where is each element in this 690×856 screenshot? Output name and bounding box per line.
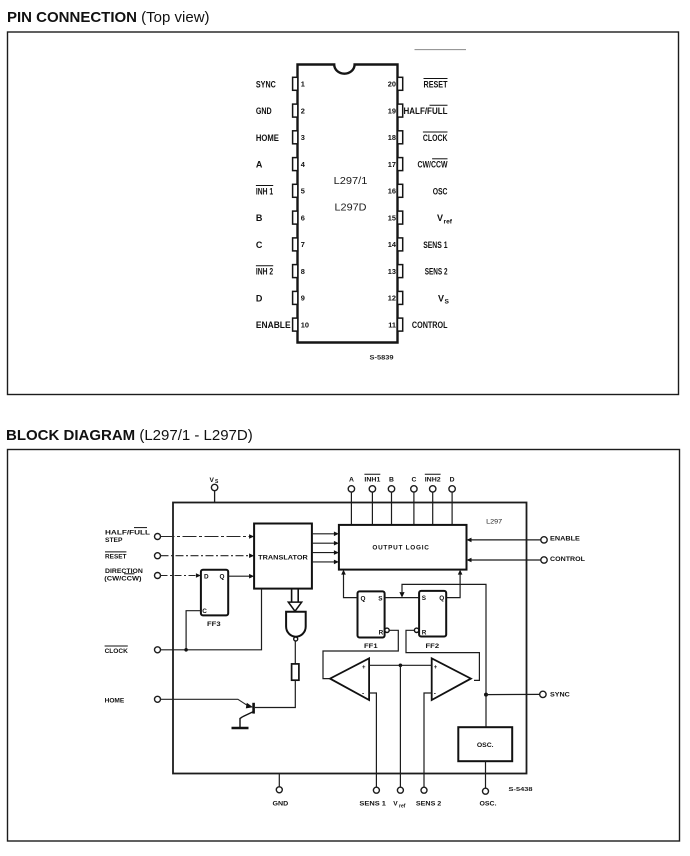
svg-text:11: 11 [388, 320, 396, 329]
svg-text:13: 13 [388, 267, 396, 276]
svg-text:2: 2 [301, 106, 305, 115]
terminal CLOCK [155, 647, 161, 653]
pin 3 (HOME) stub, number and label [256, 131, 305, 144]
wire HALF/FULL STEP to translator [161, 534, 255, 539]
terminal OSC [483, 788, 489, 794]
wire resistor to transistor collector [255, 680, 295, 707]
svg-text:INH 2: INH 2 [256, 267, 273, 277]
svg-text:SENS 1: SENS 1 [359, 800, 386, 807]
terminal Vs [211, 484, 217, 490]
transistor Q1 (open collector HOME output) [240, 703, 254, 727]
svg-text:18: 18 [388, 133, 396, 142]
svg-text:RESET: RESET [424, 79, 448, 89]
terminal CONTROL [541, 557, 547, 563]
node INH2 label and terminal [425, 474, 441, 492]
svg-text:L297D: L297D [335, 203, 367, 214]
terminal HALF/FULL STEP [155, 534, 161, 540]
svg-text:-: - [434, 691, 436, 698]
wire SYNC to terminal [486, 693, 540, 695]
svg-text:Q: Q [220, 574, 225, 581]
svg-text:19: 19 [388, 106, 396, 115]
wire CONTROL to output logic [467, 558, 541, 563]
pin 13 (SENS 2) stub, number and label [388, 265, 448, 278]
svg-text:14: 14 [388, 240, 397, 249]
wire NAND output to resistor [294, 641, 296, 664]
pin 17 (CW/CCW) stub, number and label [388, 158, 448, 171]
svg-text:5: 5 [301, 187, 305, 196]
terminal SENS 1 [373, 787, 379, 793]
wire FF1 R from comparator 1 [323, 630, 398, 678]
svg-text:V: V [210, 477, 215, 484]
flip-flop FF2 [414, 591, 446, 650]
wire GND stem [278, 774, 280, 787]
wire C to output logic [413, 492, 415, 525]
terminal Vref [397, 787, 403, 793]
svg-text:S: S [422, 595, 427, 602]
svg-text:HALF/FULL: HALF/FULL [404, 106, 448, 116]
svg-text:R: R [379, 629, 384, 636]
node INH1 label and terminal [364, 474, 380, 492]
pin 14 (SENS 1) stub, number and label [388, 238, 448, 251]
svg-text:L297/1: L297/1 [334, 176, 368, 187]
svg-text:STEP: STEP [105, 537, 123, 544]
pin 6 (B) stub, number and label [256, 211, 305, 224]
svg-text:S-5438: S-5438 [509, 787, 533, 793]
svg-text:TRANSLATOR: TRANSLATOR [258, 554, 308, 561]
block OSC (oscillator) [458, 727, 512, 761]
svg-text:INH2: INH2 [425, 477, 441, 484]
svg-text:L297: L297 [486, 518, 503, 525]
svg-text:S: S [378, 595, 383, 602]
block TRANSLATOR [254, 524, 312, 589]
pin 18 (CLOCK) stub, number and label [388, 131, 448, 144]
svg-text:GND: GND [273, 800, 289, 807]
wire FF2 Q to output logic [446, 570, 462, 598]
node C label and terminal [411, 477, 417, 493]
svg-text:7: 7 [301, 240, 305, 249]
IC boundary rectangle (L297 chip outline) [173, 503, 527, 774]
svg-text:ENABLE: ENABLE [256, 320, 291, 330]
svg-text:D: D [256, 293, 263, 303]
node D label and terminal [449, 477, 455, 493]
svg-text:SYNC: SYNC [550, 691, 570, 698]
wire DIRECTION to FF3 D input [161, 573, 201, 578]
wire FF1 Q to output logic [341, 570, 357, 598]
pin 4 (A) stub, number and label [256, 158, 306, 171]
svg-text:B: B [389, 477, 394, 484]
svg-text:CLOCK: CLOCK [105, 648, 128, 655]
wire RESET to translator [161, 553, 255, 558]
svg-text:INH1: INH1 [364, 477, 380, 484]
wire OSC block to terminal [485, 761, 487, 788]
node DIRECTION (CW/CCW) label [104, 568, 143, 583]
svg-text:12: 12 [388, 294, 396, 303]
svg-text:8: 8 [301, 267, 305, 276]
svg-text:D: D [204, 574, 209, 581]
title BLOCK DIAGRAM [6, 427, 253, 444]
stray scan line [415, 49, 467, 51]
svg-text:V: V [437, 213, 443, 223]
wire translator to output logic [312, 541, 339, 546]
svg-text:DIRECTION: DIRECTION [105, 568, 143, 575]
wire HOME to transistor base [161, 699, 254, 708]
wire translator to output logic [312, 550, 339, 555]
svg-text:A: A [349, 477, 354, 484]
wire comparator 2 - input to SENS 2 [424, 693, 432, 787]
junction CLOCK / FF3 C [184, 648, 188, 652]
NAND gate [286, 612, 306, 641]
comparator C1 (sense 1) [330, 658, 369, 700]
pin 2 (GND) stub, number and label [256, 104, 305, 117]
svg-text:20: 20 [388, 80, 396, 89]
title PIN CONNECTION [7, 9, 210, 26]
comparator C2 (sense 2) [432, 658, 471, 700]
pin 19 (HALF/FULL) stub, number and label [388, 104, 448, 117]
wire Vref to terminal [399, 665, 401, 787]
pin 15 (Vref) stub, number and label [388, 211, 453, 225]
wire FF3 Q to translator [228, 574, 254, 579]
svg-text:HOME: HOME [256, 133, 279, 143]
svg-text:16: 16 [388, 187, 396, 196]
wire translator to NAND gate (double-line hollow arrow) [288, 589, 301, 612]
svg-text:OUTPUT LOGIC: OUTPUT LOGIC [372, 545, 429, 552]
svg-text:SENS 2: SENS 2 [425, 267, 448, 277]
svg-text:Q: Q [439, 595, 444, 602]
svg-text:C: C [202, 608, 207, 615]
svg-text:V: V [438, 293, 444, 303]
wire FF3 C to clock line [186, 611, 201, 650]
svg-text:A: A [256, 160, 263, 170]
wire FF1 S to FF2 S [385, 597, 420, 599]
frame: block diagram border [8, 450, 680, 842]
svg-text:HALF/FULL: HALF/FULL [105, 529, 150, 536]
wire A to output logic [350, 492, 352, 525]
pin 16 (OSC) stub, number and label [388, 184, 448, 197]
pin 20 (RESET) stub, number and label [388, 77, 448, 90]
wire D to output logic [451, 492, 453, 525]
svg-text:INH 1: INH 1 [256, 186, 273, 196]
terminal RESET [155, 553, 161, 559]
svg-text:SENS 1: SENS 1 [423, 240, 447, 250]
wire INH2 to output logic [432, 492, 434, 525]
svg-text:6: 6 [301, 213, 305, 222]
node CLOCK label [105, 646, 128, 655]
svg-text:CONTROL: CONTROL [412, 320, 448, 330]
wire B to output logic [391, 492, 393, 525]
svg-text:RESET: RESET [105, 554, 127, 561]
wire chopper clock (OSC to flip-flops) [402, 584, 486, 727]
svg-text:ref: ref [399, 803, 406, 809]
node B label and terminal [388, 477, 394, 493]
terminal HOME [155, 696, 161, 702]
pin 5 (INH 1) stub, number and label [256, 184, 305, 197]
terminal SYNC [540, 691, 546, 697]
svg-text:FF3: FF3 [207, 621, 221, 628]
pin 12 (VS) stub, number and label [388, 291, 450, 305]
svg-text:-: - [362, 691, 364, 698]
junction Vref [399, 664, 403, 668]
svg-text:+: + [362, 665, 366, 671]
pin 8 (INH 2) stub, number and label [256, 265, 305, 278]
svg-text:C: C [411, 477, 416, 484]
svg-text:D: D [450, 477, 455, 484]
svg-text:FF2: FF2 [426, 643, 440, 650]
pin 10 (ENABLE) stub, number and label [256, 318, 309, 331]
svg-text:10: 10 [301, 320, 309, 329]
svg-text:17: 17 [388, 160, 396, 169]
svg-text:R: R [422, 629, 427, 636]
svg-text:CONTROL: CONTROL [550, 556, 585, 563]
IC package DIP-20 body with pin-1 notch [298, 65, 398, 343]
svg-text:C: C [256, 240, 263, 250]
svg-text:GND: GND [256, 106, 272, 116]
svg-text:15: 15 [388, 213, 396, 222]
pin 11 (CONTROL) stub, number and label [388, 318, 448, 331]
svg-text:ref: ref [444, 218, 453, 225]
svg-text:OSC.: OSC. [480, 800, 497, 807]
wire Vs stem [214, 491, 216, 503]
svg-text:S-5839: S-5839 [370, 355, 395, 362]
wire CLOCK to translator bottom [161, 589, 262, 650]
wire translator to output logic [312, 532, 339, 537]
flip-flop FF3 [201, 570, 228, 628]
flip-flop FF1 [358, 591, 390, 649]
terminal GND [276, 787, 282, 793]
node RESET label [105, 552, 127, 561]
svg-text:CLOCK: CLOCK [423, 133, 448, 143]
wire ENABLE to output logic [467, 538, 541, 543]
svg-text:SYNC: SYNC [256, 79, 276, 89]
svg-text:Q: Q [361, 595, 366, 602]
junction chopper clock into S line [399, 592, 404, 598]
node A label and terminal [348, 477, 354, 493]
terminal SENS 2 [421, 787, 427, 793]
pin 9 (D) stub, number and label [256, 291, 305, 304]
svg-text:(CW/CCW): (CW/CCW) [104, 576, 141, 583]
block OUTPUT LOGIC [339, 525, 467, 570]
svg-text:B: B [256, 213, 263, 223]
svg-text:ENABLE: ENABLE [550, 536, 580, 543]
wire FF2 R from comparator 2 [406, 630, 479, 680]
terminal ENABLE [541, 537, 547, 543]
svg-text:OSC.: OSC. [477, 742, 494, 749]
svg-text:1: 1 [301, 80, 305, 89]
terminal DIRECTION [155, 573, 161, 579]
wire translator to output logic [312, 560, 339, 565]
wire comparator + inputs (Vref bus) [369, 664, 432, 666]
svg-text:3: 3 [301, 133, 305, 142]
svg-text:S: S [445, 299, 450, 306]
wire INH1 to output logic [371, 492, 373, 525]
node HALF/FULL STEP label [105, 528, 150, 544]
svg-text:SENS 2: SENS 2 [416, 800, 442, 807]
svg-text:HOME: HOME [105, 697, 125, 704]
resistor (home pull) [292, 664, 299, 680]
svg-text:CW/CCW: CW/CCW [418, 160, 448, 170]
frame: pin connection diagram border [8, 32, 679, 395]
svg-text:9: 9 [301, 294, 305, 303]
svg-text:V: V [393, 800, 398, 807]
wire comparator 1 - input to SENS 1 [369, 693, 376, 787]
svg-text:+: + [434, 665, 438, 671]
pin 1 (SYNC) stub, number and label [256, 77, 305, 90]
svg-text:OSC: OSC [433, 186, 448, 196]
ground symbol (transistor emitter) [232, 727, 249, 730]
svg-text:FF1: FF1 [364, 643, 378, 650]
junction SYNC on oscillator line [484, 693, 488, 697]
pin 7 (C) stub, number and label [256, 238, 305, 251]
